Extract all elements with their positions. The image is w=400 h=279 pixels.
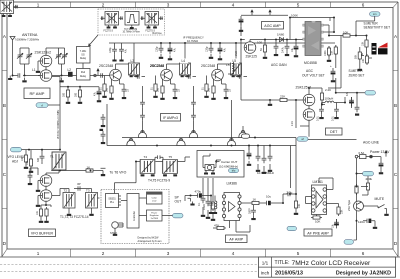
svg-text:10.7MHz X-Filter: 10.7MHz X-Filter (123, 31, 140, 34)
svg-text:4: 4 (232, 251, 235, 256)
svg-text:10K: 10K (331, 50, 334, 55)
svg-text:T1: T1 (50, 155, 54, 159)
svg-text:2016/05/13: 2016/05/13 (275, 271, 303, 277)
svg-text:50K: 50K (355, 54, 358, 59)
svg-text:120p: 120p (156, 46, 159, 52)
svg-text:7.000MHz-7.200MHz: 7.000MHz-7.200MHz (15, 38, 40, 42)
svg-text:SENSITIVITY SET: SENSITIVITY SET (364, 26, 391, 30)
svg-text:Inch: Inch (261, 271, 270, 276)
svg-text:T2: T2 (64, 188, 68, 192)
svg-text:300P: 300P (248, 208, 251, 214)
svg-text:2SK125x2: 2SK125x2 (35, 51, 52, 55)
svg-text:47u: 47u (174, 47, 177, 52)
svg-text:MUTE: MUTE (375, 197, 385, 201)
svg-text:AF AMP: AF AMP (229, 238, 243, 242)
svg-text:Relay: Relay (80, 57, 87, 60)
svg-text:AGC: AGC (306, 69, 314, 73)
svg-text:10u: 10u (291, 47, 294, 52)
svg-text:7MHz Color LCD Receiver: 7MHz Color LCD Receiver (292, 260, 372, 267)
svg-text:L2: L2 (68, 68, 72, 72)
svg-text:200k: 200k (366, 177, 373, 181)
svg-text:7CY1012CM: 7CY1012CM (124, 29, 137, 31)
svg-text:1: 1 (37, 251, 40, 256)
svg-text:1K: 1K (87, 166, 91, 170)
svg-text:470u: 470u (195, 189, 202, 193)
svg-text:L4: L4 (182, 59, 186, 63)
svg-text:DET: DET (330, 130, 338, 134)
svg-text:OUT VOLT SET: OUT VOLT SET (302, 74, 325, 78)
svg-text:LCD: LCD (152, 201, 157, 203)
svg-text:To T6 VFO: To T6 VFO (110, 171, 127, 175)
svg-text:101: 101 (36, 210, 39, 215)
svg-text:Arrangement by K-sun: Arrangement by K-sun (138, 240, 163, 243)
svg-text:10K: 10K (361, 41, 364, 46)
svg-text:3: 3 (167, 251, 170, 256)
svg-text:L1: L1 (32, 68, 36, 72)
svg-text:10K: 10K (362, 58, 365, 63)
svg-text:10K: 10K (315, 220, 320, 224)
svg-text:T1,T2,T3 FCZ7S-14: T1,T2,T3 FCZ7S-14 (60, 215, 89, 219)
svg-text:47u: 47u (125, 48, 128, 53)
svg-text:1/1: 1/1 (262, 260, 269, 265)
svg-text:T3: T3 (86, 188, 90, 192)
svg-text:FCZ7S-3: FCZ7S-3 (104, 30, 114, 32)
svg-text:47u: 47u (224, 47, 227, 52)
svg-text:6: 6 (362, 251, 365, 256)
svg-text:3: 3 (167, 2, 170, 7)
svg-text:120p: 120p (206, 46, 209, 52)
svg-text:100uH: 100uH (325, 97, 334, 101)
svg-text:AGC-LINE: AGC-LINE (363, 141, 380, 145)
svg-text:AGC AMP: AGC AMP (264, 24, 281, 28)
svg-text:0.022: 0.022 (203, 203, 206, 210)
svg-text:2SC2348: 2SC2348 (150, 64, 164, 68)
svg-text:2SA Type: 2SA Type (347, 199, 351, 211)
svg-text:10K: 10K (343, 31, 348, 35)
svg-text:1N60: 1N60 (277, 33, 285, 37)
svg-text:ANTENA: ANTENA (22, 33, 38, 37)
svg-text:3P: 3P (77, 182, 81, 186)
svg-text:B: B (3, 103, 6, 108)
svg-text:rf: rf (41, 103, 43, 107)
svg-text:sm: sm (373, 13, 376, 16)
svg-text:1: 1 (37, 2, 40, 7)
svg-text:300: 300 (63, 92, 66, 97)
svg-text:22K: 22K (280, 95, 285, 99)
svg-text:+: + (330, 64, 332, 68)
svg-text:OUT: OUT (175, 200, 182, 204)
svg-text:100K: 100K (291, 13, 298, 17)
svg-text:PLL: PLL (110, 202, 115, 204)
svg-text:S.METER: S.METER (349, 69, 364, 73)
svg-text:10K: 10K (340, 209, 343, 214)
svg-text:330: 330 (37, 157, 40, 162)
svg-text:1K: 1K (253, 198, 257, 202)
svg-text:1M0: 1M0 (235, 51, 238, 56)
svg-text:47u: 47u (94, 91, 97, 96)
svg-text:LM741: LM741 (313, 180, 323, 184)
svg-text:Regulator: Regulator (150, 214, 159, 217)
svg-text:0.5A: 0.5A (359, 151, 365, 155)
svg-text:0.01: 0.01 (331, 116, 334, 121)
svg-text:0.01: 0.01 (316, 116, 319, 121)
svg-text:MC4558: MC4558 (304, 61, 317, 65)
svg-text:47u: 47u (346, 91, 349, 96)
svg-text:10u: 10u (331, 223, 334, 228)
svg-text:af: af (301, 137, 303, 141)
svg-text:100: 100 (257, 41, 262, 45)
svg-text:Power 13.8V: Power 13.8V (370, 150, 390, 154)
svg-text:10u: 10u (266, 195, 271, 199)
svg-text:SI5351: SI5351 (108, 199, 116, 201)
svg-text:10.6965MHz: 10.6965MHz (257, 171, 275, 175)
svg-text:Color: Color (152, 197, 157, 200)
svg-text:2.2K: 2.2K (325, 88, 331, 92)
svg-text:2: 2 (102, 2, 105, 7)
svg-text:Carrier OUT: Carrier OUT (221, 160, 238, 164)
svg-text:2SK125: 2SK125 (246, 55, 258, 59)
svg-text:RF AMP: RF AMP (30, 91, 45, 96)
svg-text:Rxd: Rxd (81, 71, 86, 74)
svg-text:L5: L5 (226, 63, 230, 67)
svg-text:7v/7808: 7v/7808 (150, 218, 158, 220)
svg-text:2SC2348: 2SC2348 (99, 64, 113, 68)
svg-text:100K: 100K (324, 50, 327, 56)
svg-text:ADJ: ADJ (12, 159, 18, 163)
svg-text:Designed by JA2NKD: Designed by JA2NKD (336, 271, 391, 277)
svg-text:AF PRE AMP: AF PRE AMP (307, 231, 329, 235)
svg-text:Rxd Use: Rxd Use (153, 32, 163, 35)
svg-text:5: 5 (297, 2, 300, 7)
svg-text:120p: 120p (109, 47, 112, 53)
svg-text:LM386: LM386 (227, 182, 237, 186)
svg-text:10K: 10K (298, 203, 301, 208)
svg-text:TITLE:: TITLE: (275, 260, 290, 266)
svg-text:bfo: bfo (232, 169, 236, 173)
svg-text:L5: L5 (233, 59, 237, 63)
svg-text:10K: 10K (26, 160, 29, 165)
svg-text:VFO BUFFER: VFO BUFFER (31, 232, 54, 236)
svg-text:10K: 10K (21, 156, 24, 161)
svg-text:2.2K: 2.2K (291, 121, 294, 126)
svg-text:5: 5 (297, 251, 300, 256)
svg-text:6: 6 (362, 2, 365, 7)
svg-text:B: B (394, 103, 397, 108)
svg-text:(10.6965MHz): (10.6965MHz) (219, 164, 238, 168)
svg-text:T4,T5 FCZ7S-9: T4,T5 FCZ7S-9 (148, 179, 170, 183)
svg-text:VFO IN 7.000MHz+10.7MHz: VFO IN 7.000MHz+10.7MHz (58, 109, 60, 139)
svg-text:0.47u: 0.47u (282, 46, 285, 53)
svg-text:Controller: Controller (133, 211, 136, 221)
svg-text:300: 300 (75, 92, 78, 97)
svg-text:IF AMPx3: IF AMPx3 (163, 116, 178, 120)
svg-text:T4: T4 (144, 155, 148, 159)
svg-text:10.7MHz: 10.7MHz (187, 39, 199, 43)
svg-text:T5: T5 (169, 155, 173, 159)
svg-text:Relay: Relay (80, 75, 87, 78)
svg-text:2: 2 (102, 251, 105, 256)
svg-text:5K: 5K (260, 48, 263, 51)
svg-text:ZERO SET: ZERO SET (349, 74, 365, 78)
svg-text:AGC GAIN: AGC GAIN (271, 63, 287, 67)
svg-text:4: 4 (232, 2, 235, 7)
svg-text:Power: Power (151, 212, 157, 215)
